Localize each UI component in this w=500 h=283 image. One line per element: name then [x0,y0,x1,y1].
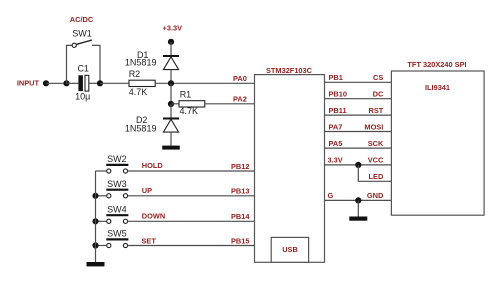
wire PB10 to DC [325,98,392,100]
svg-text:SW5: SW5 [107,229,127,239]
svg-text:+3.3V: +3.3V [163,24,183,33]
svg-text:C1: C1 [77,64,89,74]
wire +3.3V to D1 cathode [170,42,172,56]
wire PB11 to RST [325,114,392,116]
svg-text:10µ: 10µ [75,91,90,101]
svg-text:DOWN: DOWN [142,212,165,221]
switch SW3 actuator bar [106,189,128,191]
node +3.3V terminal dot [168,39,174,45]
svg-text:PB15: PB15 [231,236,250,245]
svg-text:SW2: SW2 [107,154,127,164]
IC block STM32F103C [255,75,325,263]
svg-text:PB11: PB11 [329,106,347,115]
wire PB1 to CS [325,81,392,83]
switch SW2 right contact [123,169,127,173]
wire R1 node down to D2 cathode [170,104,172,119]
wire bus to SW4 [96,220,107,222]
switch SW5 left contact [107,243,111,247]
wire R1 to STM32 PA2 [205,103,255,105]
wire GND down to ground [357,200,359,216]
resistor R2 [129,80,155,86]
diode D1 cathode bar [163,55,179,57]
wire PA7 to MOSI [325,131,392,133]
switch SW4 left contact [107,219,111,223]
capacitor C1 left plate [78,75,83,91]
wire SW1 left leg [67,45,73,83]
switch SW2 actuator bar [106,164,128,166]
svg-text:AC/DC: AC/DC [70,15,94,24]
junction dot left of C1 [63,80,69,86]
wire G to GND [325,199,392,201]
svg-text:PB12: PB12 [231,162,250,171]
svg-text:ILI9341: ILI9341 [425,83,450,92]
svg-text:RST: RST [369,106,384,115]
svg-text:SW4: SW4 [107,204,127,214]
wire SW4 to STM32 PB14 [128,220,255,222]
wire D2 anode to ground [170,132,172,146]
svg-text:PB14: PB14 [231,212,250,221]
svg-text:PB10: PB10 [329,90,348,99]
switch SW5 actuator bar [106,238,128,240]
svg-text:MOSI: MOSI [364,122,383,131]
diode D2 triangle [163,119,178,132]
junction dot R1 node [168,101,174,107]
svg-text:GND: GND [367,191,384,200]
svg-text:INPUT: INPUT [17,79,40,88]
wire C1 left lead [67,82,79,84]
switch SW1 blade [76,40,92,44]
svg-text:1N5819: 1N5819 [125,124,157,134]
svg-text:TFT 320X240 SPI: TFT 320X240 SPI [407,60,466,69]
switch SW5 right contact [123,243,127,247]
wire C1 to R2 [100,82,129,84]
svg-text:SW3: SW3 [107,179,127,189]
wire INPUT to C1 left junction [46,82,67,84]
junction dot VCC branch [355,162,361,168]
wire SW3 to STM32 PB13 [128,195,255,197]
wire R2 to STM32 PA0 [155,82,254,84]
diode D2 cathode bar [163,118,179,120]
switch SW3 left contact [107,194,111,198]
svg-text:LED: LED [369,172,384,181]
wire PA5 to SCK [325,147,392,149]
svg-text:PB13: PB13 [231,187,250,196]
svg-text:USB: USB [282,245,298,254]
switch SW4 actuator bar [106,214,128,216]
svg-text:G: G [328,191,334,200]
svg-text:R1: R1 [180,89,192,99]
svg-text:CS: CS [373,73,383,82]
svg-text:STM32F103C: STM32F103C [266,66,313,75]
wire switch ground bus [95,171,97,262]
switch SW1 contact circle [72,43,76,47]
wire VCC branch down to LED [358,165,391,181]
svg-text:PA7: PA7 [329,122,343,131]
junction dot bus SW5 [92,242,98,248]
svg-text:PB1: PB1 [329,73,343,82]
wire SW1 right leg [92,45,100,83]
svg-text:4.7K: 4.7K [129,87,148,97]
USB connector box [271,237,308,262]
svg-text:SW1: SW1 [72,29,92,39]
switch SW2 left contact [107,169,111,173]
junction dot PA0 node [168,80,174,86]
ground bar below switch bus [87,262,105,266]
diode D1 triangle [163,57,178,70]
wire R1 left lead [171,103,179,105]
svg-text:PA0: PA0 [233,74,247,83]
wire bus to SW2 [96,170,107,172]
svg-text:R2: R2 [129,69,141,79]
wire SW5 to STM32 PB15 [128,245,255,247]
display block TFT ILI9341 [391,71,484,215]
wire bus to SW3 [96,195,107,197]
ground bar under D2 [162,146,180,150]
svg-text:PA5: PA5 [329,139,343,148]
switch SW3 right contact [123,194,127,198]
resistor R1 [179,101,205,107]
svg-text:DC: DC [373,90,384,99]
svg-text:1N5819: 1N5819 [125,57,157,67]
svg-text:SCK: SCK [368,139,384,148]
capacitor C1 right plate [85,75,89,91]
svg-text:PA2: PA2 [233,95,247,104]
svg-text:VCC: VCC [368,156,384,165]
wire C1 right lead [89,82,100,84]
junction dot bus SW4 [92,218,98,224]
ground bar at TFT GND [349,217,367,221]
wire D1 anode to node [170,70,172,84]
junction dot bus SW3 [92,193,98,199]
junction dot right of C1 [97,80,103,86]
svg-text:UP: UP [142,186,152,195]
wire SW2 to STM32 PB12 [128,170,255,172]
node INPUT terminal dot [43,80,49,86]
wire PA0 node down to R1 node [170,83,172,104]
junction dot GND [355,197,361,203]
svg-text:HOLD: HOLD [142,161,164,170]
wire bus to SW5 [96,245,107,247]
svg-text:4.7K: 4.7K [180,106,199,116]
switch SW4 right contact [123,219,127,223]
wire 3.3V to VCC [325,164,392,166]
svg-text:SET: SET [142,237,157,246]
svg-text:3.3V: 3.3V [328,156,343,165]
